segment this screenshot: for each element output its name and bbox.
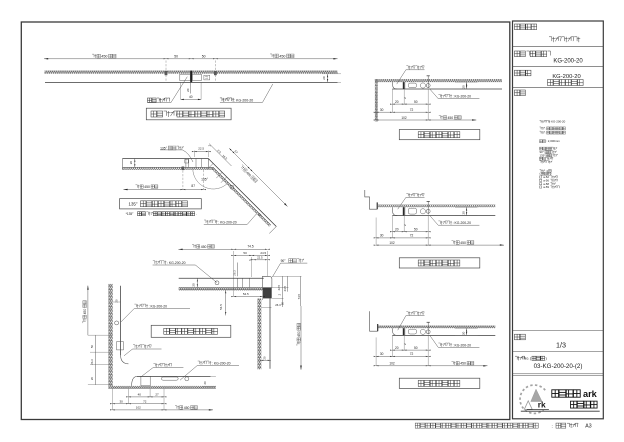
svg-text:50: 50 (414, 346, 418, 350)
svg-text:03-KG-200-20-(2): 03-KG-200-20-(2) (534, 363, 583, 370)
guard bottom line (392, 88, 502, 90)
title box: end plan detail (399, 130, 480, 140)
135 angle arc (193, 169, 228, 190)
top guard outer line (179, 277, 264, 279)
corner block (dark) (263, 288, 272, 299)
svg-text:20: 20 (395, 100, 399, 104)
bottom guard joint box (141, 376, 150, 385)
joint bar (dark) (190, 71, 192, 83)
corner to guard join lines (262, 298, 264, 300)
label kick guard bottom (198, 361, 200, 364)
screw stem and head (427, 322, 429, 334)
svg-text:20: 20 (90, 377, 94, 381)
dim 22.5 top (193, 151, 195, 157)
svg-text:50: 50 (202, 54, 206, 58)
svg-text:20: 20 (186, 88, 190, 92)
svg-text:(: ( (540, 172, 541, 176)
svg-text:: KG-200-20: : KG-200-20 (167, 261, 186, 265)
ext lines below (391, 89, 393, 112)
ext lines below (391, 216, 393, 238)
svg-text:20: 20 (461, 211, 465, 215)
label chokusen joint (148, 98, 152, 102)
view3 wall end bar (377, 324, 378, 331)
view: end plan detail 1 (374, 66, 502, 140)
bottom guard slot (161, 377, 178, 380)
row divider lines (513, 46, 604, 48)
guard bottom line (392, 215, 495, 217)
joint piece right box (192, 74, 201, 80)
svg-text:: KG-200-20: : KG-200-20 (550, 120, 566, 124)
diagonal dim line A (2.5/16.5) (209, 144, 231, 166)
svg-text:135°: 135° (201, 178, 209, 182)
svg-text:*135°: *135° (126, 212, 135, 216)
svg-text:1/3: 1/3 (556, 340, 566, 349)
title box: 135 outside corner plan detail (120, 199, 202, 209)
screw hole (426, 209, 430, 213)
dimension line top (vis span) (44, 58, 338, 60)
end cap (393, 207, 398, 215)
svg-text:a-59: a-59 (543, 185, 549, 189)
bottom guard top line (137, 375, 211, 377)
dim line 20/50 (392, 231, 428, 233)
logo underline (521, 410, 600, 412)
bottom note text (415, 423, 420, 428)
dim 20 at guard break (196, 278, 198, 287)
svg-text:20: 20 (192, 283, 196, 287)
dim 20 bottom-right of band (201, 375, 216, 377)
svg-text:27: 27 (155, 393, 159, 397)
wall hatch band (378, 79, 502, 82)
svg-text:50: 50 (174, 54, 178, 58)
cap end bar (dark) (403, 328, 405, 335)
label endcap (406, 66, 408, 69)
slot (408, 83, 416, 88)
svg-text:30: 30 (380, 234, 384, 238)
svg-text:450: 450 (460, 362, 466, 366)
view: end plan detail 2 (374, 193, 504, 268)
svg-text:102: 102 (136, 406, 141, 410)
label hinban(seihin-mei) (515, 51, 520, 57)
ext lines below (391, 335, 393, 356)
svg-text:102: 102 (389, 241, 395, 245)
svg-text:ark: ark (583, 389, 598, 399)
ext lines from top dims (233, 251, 235, 297)
title box: in-out corner plan detail (151, 325, 231, 337)
title box: end plan detail (399, 258, 480, 268)
svg-text:1.5: 1.5 (204, 75, 208, 79)
dim line 20/50 (392, 349, 428, 351)
svg-text:72: 72 (143, 399, 147, 403)
wall hatch band (45, 71, 338, 74)
svg-text:: KG-200-20: : KG-200-20 (453, 343, 472, 347)
end cap (393, 82, 398, 89)
svg-text:: KG-200-20: : KG-200-20 (453, 95, 472, 99)
screw hole (426, 330, 430, 334)
screw stem and head (427, 201, 429, 214)
dim 50/24.5 (234, 254, 268, 256)
bottom dim line vis450 / 87 (203, 170, 205, 190)
slot (408, 329, 416, 334)
svg-text:450: 450 (279, 54, 285, 58)
svg-text:40: 40 (138, 393, 142, 397)
label zumen-mei (515, 70, 520, 76)
svg-text:20: 20 (461, 85, 465, 89)
joint line (404, 328, 406, 335)
dim 20 right (455, 327, 478, 329)
svg-text:102: 102 (401, 116, 407, 120)
svg-text:50: 50 (243, 251, 247, 255)
dim 20 right end (322, 73, 341, 75)
logo underline small (527, 409, 549, 411)
leader to joint (171, 77, 187, 103)
value linda protector (549, 37, 552, 41)
svg-text:72: 72 (410, 108, 414, 112)
svg-text:: KG-200-20: : KG-200-20 (149, 304, 168, 308)
svg-text:22.5: 22.5 (257, 256, 263, 260)
svg-text:: KG-200-20: : KG-200-20 (453, 221, 472, 225)
title block border (513, 21, 604, 419)
small clip rect (185, 159, 188, 163)
slot (408, 208, 416, 214)
logo dotted circle (520, 385, 545, 413)
svg-text:24.5: 24.5 (260, 251, 266, 255)
view: end plan detail 3 (374, 312, 496, 389)
dim line 102 and vis-450 (376, 119, 476, 121)
right rotated dims 22.5/2/24.5/74.5/50 (272, 275, 302, 277)
label kick guard (438, 343, 440, 346)
svg-text:102: 102 (389, 362, 395, 366)
gap dim 1.5 box (204, 75, 210, 80)
left wall hatch band vertical (108, 284, 112, 389)
top guard joint boxes (236, 278, 238, 287)
view2 wall end bar (377, 202, 378, 209)
svg-text:30: 30 (380, 108, 384, 112)
corner cover box (263, 276, 272, 287)
left dim chain ticks (88, 334, 113, 336)
label shiyou (515, 90, 520, 96)
label file no (515, 356, 517, 359)
label endcap (406, 193, 408, 196)
diagonal end cut (269, 227, 276, 234)
view: in-out corner plan detail (83, 244, 307, 410)
dim 30/72 (112, 403, 164, 405)
svg-text:26.3: 26.3 (90, 359, 94, 365)
screw on horizontal band (182, 167, 185, 171)
svg-text:135°: 135° (540, 153, 546, 157)
svg-text:450: 450 (448, 116, 454, 120)
view: 135deg outside corner plan detail (120, 144, 288, 234)
svg-text:54.5: 54.5 (243, 292, 249, 296)
diagonal dim line B (57 / vis-450) (229, 148, 288, 207)
label endcap bottom guard (153, 363, 155, 366)
leader to guard (263, 84, 273, 102)
diagonal wall face line (213, 167, 271, 225)
dim 20 vertical below joint (189, 82, 191, 93)
left guard joint box (117, 342, 124, 350)
svg-text:20: 20 (395, 346, 399, 350)
round piece (420, 83, 425, 88)
view2 zigzag wall end (365, 190, 378, 209)
dim text vis-kan-450 right (270, 54, 272, 57)
svg-text:26.3: 26.3 (232, 270, 236, 276)
dim 20 right (455, 206, 478, 208)
svg-text:74.5: 74.5 (297, 293, 301, 299)
bottom wall hatch band (112, 386, 215, 389)
svg-text:90°: 90° (281, 259, 287, 263)
round piece (420, 209, 425, 214)
svg-text:135°: 135° (129, 202, 138, 207)
vertical vis450 dim right (300, 306, 302, 370)
logo small triangle (524, 401, 532, 410)
svg-text:: KG-200-20: : KG-200-20 (212, 361, 231, 365)
round piece (420, 329, 425, 334)
top wall hatch band (179, 288, 263, 291)
right wall guard line (269, 298, 271, 368)
svg-text:20: 20 (461, 331, 465, 335)
dim 20 left (134, 159, 136, 168)
view1 left corner wall vertical hatch (375, 79, 378, 122)
joint line (404, 207, 406, 215)
wall face line horizontal (123, 166, 214, 168)
guard top line horizontal (123, 158, 209, 160)
top dim chain (178, 248, 267, 250)
dim line 30/72 (376, 237, 428, 239)
dim 102 / vis450 (112, 409, 213, 411)
logo A mark gray (531, 389, 542, 401)
left wall guard line (120, 286, 122, 356)
svg-text:40: 40 (189, 95, 193, 99)
dim 40/27 (129, 396, 165, 398)
screw hole (426, 84, 430, 88)
left vertical vis450 dim (87, 286, 89, 336)
svg-text:30: 30 (120, 399, 124, 403)
title box: end plan detail (399, 378, 480, 388)
screw centerline left (165, 61, 167, 83)
svg-text:No.: No. (524, 357, 530, 361)
svg-text:.: . (196, 212, 197, 216)
svg-text:72: 72 (410, 352, 414, 356)
label kick guard (438, 94, 440, 97)
svg-text:20: 20 (322, 76, 326, 80)
diagonal guard outer line (208, 159, 276, 227)
screw on diagonal (230, 185, 234, 189)
dim line 20/50 (392, 103, 428, 105)
label endcap left guard (133, 345, 135, 348)
label endcap (406, 312, 408, 315)
wall hatch band horizontal (123, 167, 214, 170)
svg-text:): ) (551, 172, 552, 176)
svg-text:: KG-200-20: : KG-200-20 (218, 220, 237, 224)
svg-text:KG-200-20: KG-200-20 (553, 59, 583, 65)
screw right (214, 71, 217, 75)
label shukushaku (515, 334, 520, 340)
dim 54.5 rotated left (225, 290, 227, 316)
svg-text:22.5: 22.5 (277, 284, 281, 290)
view1 corner wall top band left part (375, 79, 378, 82)
dim 54.5 below corner (234, 296, 263, 298)
svg-text:450: 450 (201, 245, 207, 249)
svg-text:30: 30 (380, 352, 384, 356)
dim line 102 and vis-450 (376, 365, 487, 367)
label kick guard 135 view (204, 220, 206, 223)
screw left (165, 71, 168, 75)
screw centerline right (214, 61, 216, 83)
wall hatch band (378, 205, 496, 208)
kick guard bottom line (45, 81, 338, 83)
screw stem and head (427, 76, 429, 88)
svg-text:54.5: 54.5 (219, 304, 223, 310)
svg-text::: : (552, 423, 553, 428)
end cap (393, 328, 398, 335)
svg-text:74.5: 74.5 (247, 244, 253, 248)
label shouhin-kubun (515, 24, 520, 30)
dim line 30/72 (376, 355, 428, 357)
left end line (122, 159, 124, 170)
title box: straight joint plan detail (146, 108, 231, 120)
svg-text:450: 450 (297, 331, 301, 337)
view: straight joint plan detail (44, 54, 341, 120)
joint piece left box (180, 74, 190, 80)
wall hatch band (378, 326, 496, 329)
svg-text:20: 20 (262, 356, 266, 360)
svg-text:20: 20 (203, 381, 207, 385)
label kick guard (438, 221, 440, 224)
screw on bottom guard (185, 377, 189, 381)
dim line 30/72 (376, 111, 428, 113)
svg-text:20: 20 (395, 228, 399, 232)
cap end bar (dark) (403, 207, 405, 215)
svg-text:50: 50 (90, 345, 94, 349)
svg-text:72: 72 (410, 234, 414, 238)
svg-text:450: 450 (184, 406, 190, 410)
svg-text:22.5: 22.5 (198, 146, 204, 150)
guard bottom line (392, 334, 495, 336)
svg-text:A3: A3 (585, 424, 591, 430)
svg-text:50: 50 (414, 228, 418, 232)
svg-text:450: 450 (144, 185, 150, 189)
svg-text:450: 450 (83, 309, 87, 315)
svg-text:: KG-200-20: : KG-200-20 (234, 98, 253, 102)
top wall face line (179, 287, 263, 289)
svg-text:50: 50 (414, 100, 418, 104)
svg-text:20: 20 (129, 161, 133, 165)
logo text atlas ark (552, 390, 559, 397)
joint line (404, 82, 406, 89)
svg-text:rk: rk (538, 400, 546, 410)
leader to corner cover (183, 150, 194, 162)
label kick guard KG-200-20 (220, 98, 222, 101)
svg-text:24.5: 24.5 (283, 286, 287, 292)
label kick guard left (134, 304, 136, 307)
bottom guard end cap (132, 376, 138, 386)
label kick guard top-left (153, 261, 155, 264)
svg-text:450: 450 (101, 55, 107, 59)
dim text vis-kan-450 left (92, 54, 94, 57)
svg-text:450: 450 (460, 241, 466, 245)
diagonal joint perpendicular lines (207, 163, 213, 169)
dim 20 right (455, 81, 478, 83)
diagonal wall hatch band (211, 167, 270, 226)
dim 2/22.5 (252, 259, 268, 261)
view3 wall stub (370, 311, 378, 331)
title block (513, 21, 604, 419)
svg-text:: 2,000mm: : 2,000mm (546, 139, 560, 143)
svg-text:50: 50 (281, 302, 285, 306)
cap end bar (dark) (403, 82, 405, 89)
left guard end cap curve (121, 355, 129, 364)
logo text kabushiki-gaisha (571, 401, 577, 408)
spec text block (540, 120, 542, 122)
dim 40 (180, 82, 182, 99)
dim 26.3 below corner (262, 306, 272, 308)
dim line 102 and vis-450 (376, 244, 504, 246)
dim 20 bottom of right wall (260, 359, 271, 361)
svg-text:87: 87 (191, 184, 195, 188)
right wall hatch band vertical (257, 298, 261, 369)
ext lines bottom dims (111, 389, 113, 410)
dim 26.3 rotated left of corner (237, 263, 239, 277)
svg-text:KG-200-20: KG-200-20 (552, 74, 580, 80)
screw on left guard (115, 321, 119, 325)
corner cover boxes (185, 159, 187, 168)
drawing frame (21, 22, 510, 420)
screw on top guard (215, 281, 219, 285)
